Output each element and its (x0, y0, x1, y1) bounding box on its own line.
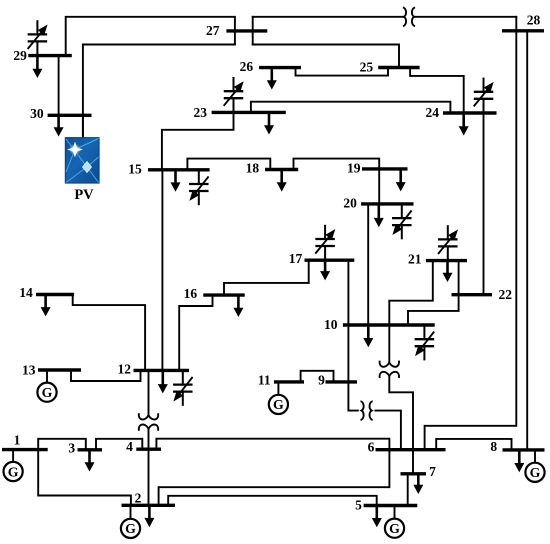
svg-text:5: 5 (355, 497, 362, 512)
bus 28 bar (502, 29, 544, 32)
bus 29 bar (28, 54, 72, 57)
svg-text:4: 4 (126, 439, 133, 454)
bus 19 bar (362, 167, 408, 170)
bus 17 bar (305, 259, 355, 262)
generator G bus 13 (37, 370, 56, 402)
generator G bus 11 (269, 382, 288, 414)
svg-text:17: 17 (289, 251, 303, 266)
PV unit panel (65, 138, 99, 184)
wire 8-28 (526, 31, 528, 450)
svg-text:23: 23 (194, 105, 208, 120)
bus 25 bar (378, 66, 419, 69)
svg-text:21: 21 (408, 252, 422, 267)
svg-text:28: 28 (527, 13, 541, 28)
transformer 6-10 (380, 361, 399, 378)
bus 2 bar (122, 504, 176, 507)
load arrow bus 2 (144, 505, 154, 527)
svg-text:26: 26 (240, 59, 254, 74)
wire 19-20 (378, 169, 380, 204)
bus 26 bar (259, 66, 301, 69)
svg-text:3: 3 (68, 440, 75, 455)
svg-text:12: 12 (118, 361, 132, 376)
wire 15-18 (187, 159, 270, 170)
load arrow bus 19 (396, 169, 406, 192)
wire 10-20 (367, 204, 369, 325)
wire 24-25 (410, 68, 464, 114)
generator G bus 2 (121, 505, 140, 538)
svg-text:16: 16 (184, 286, 198, 301)
svg-text:G: G (8, 464, 19, 479)
wire 10-22 (408, 295, 459, 325)
svg-text:22: 22 (499, 287, 513, 302)
wire 12-13 (71, 370, 141, 381)
shunt SVC bus 17 (315, 225, 335, 260)
load arrow bus 7 (413, 474, 423, 494)
wire 2-5 (168, 496, 377, 506)
load arrow bus 29 (32, 56, 42, 78)
bus 20 bar (361, 202, 413, 205)
svg-text:14: 14 (19, 285, 33, 300)
load arrow bus 20 (374, 204, 384, 227)
wire 23-24 (251, 102, 451, 113)
wire 4-12 lower lead and 2-4 (148, 429, 150, 505)
bus 11 bar (274, 380, 304, 383)
load arrow bus 18 (277, 170, 287, 192)
wire 6-28 (425, 17, 517, 450)
svg-text:11: 11 (258, 373, 271, 388)
svg-text:24: 24 (426, 105, 440, 120)
shunt SVC bus 29 (28, 20, 48, 55)
load arrow bus 24 (459, 113, 469, 136)
wire 16-17 (224, 260, 309, 295)
load arrow bus 15 (171, 170, 181, 192)
svg-text:1: 1 (14, 433, 21, 448)
wire 27-30 (83, 45, 235, 138)
transformer 27-28 (403, 7, 415, 26)
bus 30 bar (48, 114, 92, 117)
load arrow bus 12 (158, 370, 168, 393)
bus 18 bar (265, 168, 298, 171)
shunt SVC bus 24 (474, 78, 494, 113)
svg-text:13: 13 (22, 362, 36, 377)
load arrow bus 23 (264, 112, 274, 134)
bus 7 bar (401, 472, 427, 475)
bus 6 bar (376, 448, 446, 451)
wire 21-22 (458, 261, 460, 295)
wire 5-7 (407, 474, 409, 506)
bus 27 bar (226, 29, 267, 32)
transformer 4-12 (139, 413, 158, 430)
wire 12-16 (179, 295, 212, 370)
shunt SVC bus 15 (189, 170, 209, 205)
bus 21 bar (426, 259, 467, 262)
wire 30-PV (82, 115, 84, 137)
load arrow bus 17 (320, 260, 330, 280)
svg-text:30: 30 (30, 106, 44, 121)
shunt SVC bus 21 (438, 225, 458, 260)
wire 27 right riser (252, 17, 254, 45)
load arrow bus 16 (233, 295, 243, 317)
load arrow bus 8 (514, 450, 524, 472)
bus 15 bar (148, 168, 210, 171)
bus 23 bar (212, 111, 286, 114)
wire 4-12 upper lead (148, 370, 150, 414)
svg-text:PV: PV (74, 187, 94, 203)
svg-text:18: 18 (246, 161, 260, 176)
svg-text:6: 6 (368, 439, 375, 454)
bus 16 bar (203, 293, 244, 296)
svg-text:25: 25 (360, 60, 374, 75)
wire 6-9 left (348, 382, 357, 411)
bus 24 bar (443, 111, 497, 114)
bus 1 bar (2, 448, 48, 451)
generator G bus 1 (4, 450, 23, 482)
wire 2-6 (159, 450, 390, 506)
shunt SVC bus 23 (224, 77, 244, 112)
wire 9-11 (301, 371, 334, 382)
svg-text:2: 2 (135, 491, 142, 506)
wire 10-17 (347, 260, 349, 325)
wire 10-21 (389, 261, 433, 325)
svg-text:15: 15 (128, 162, 142, 177)
load arrow bus 3 (85, 450, 95, 472)
wire 15-23 (162, 112, 234, 169)
generator G bus 5 (385, 506, 404, 538)
load arrow bus 10 (363, 325, 373, 347)
svg-text:27: 27 (206, 23, 220, 38)
generator G bus 8 (525, 450, 544, 482)
wire 22-24 (483, 113, 485, 295)
bus 5 bar (364, 504, 418, 507)
wire 12-15 (161, 170, 163, 371)
shunt SVC bus 20 (392, 204, 412, 239)
shunt SVC bus 12 (173, 370, 193, 405)
wire 27-28 left (253, 16, 405, 18)
wire 27-29 (66, 17, 235, 56)
wire 18-19 (294, 159, 380, 170)
svg-text:20: 20 (343, 196, 357, 211)
svg-text:8: 8 (490, 439, 497, 454)
svg-text:19: 19 (347, 160, 361, 175)
bus 13 bar (38, 368, 81, 371)
transformer 6-9 (361, 401, 373, 420)
bus 22 bar (452, 293, 493, 296)
load arrow bus 30 (54, 115, 64, 136)
wire 29-30 (58, 56, 60, 116)
bus 8 bar (503, 448, 545, 451)
load arrow bus 14 (41, 295, 51, 317)
wire 12-14 (73, 295, 145, 371)
bus 4 bar (136, 448, 161, 451)
shunt SVC bus 10 (415, 325, 435, 360)
svg-text:G: G (42, 385, 53, 400)
wire 4-6 (156, 439, 389, 450)
wire 1-2 (38, 450, 131, 506)
bus 9 bar (326, 380, 358, 383)
load arrow bus 21 (443, 261, 453, 282)
svg-text:7: 7 (429, 464, 436, 479)
svg-text:G: G (530, 465, 541, 480)
wire 6-10 lower lead and 6-7 (389, 377, 413, 474)
load arrow bus 5 (372, 506, 382, 528)
bus 14 bar (36, 293, 74, 296)
wire 1-3 (38, 439, 86, 450)
svg-text:10: 10 (324, 317, 338, 332)
svg-text:9: 9 (318, 373, 325, 388)
svg-text:G: G (389, 521, 400, 536)
bus 10 bar (343, 323, 435, 326)
svg-text:G: G (125, 521, 136, 536)
svg-text:G: G (273, 397, 284, 412)
wire 6-8 (436, 439, 511, 450)
wire 27-28 right (414, 16, 517, 18)
wire 25-26 (296, 68, 389, 76)
load arrow bus 26 (267, 68, 277, 90)
wire 6-10 upper lead (388, 325, 390, 362)
wire 27-25 (253, 45, 399, 68)
svg-text:29: 29 (13, 48, 27, 63)
wire 9-10 (347, 325, 349, 382)
bus 3 bar (78, 448, 103, 451)
wire 3-4 (96, 439, 142, 450)
wire 6-9 right (375, 411, 401, 450)
bus 12 bar (134, 369, 190, 372)
